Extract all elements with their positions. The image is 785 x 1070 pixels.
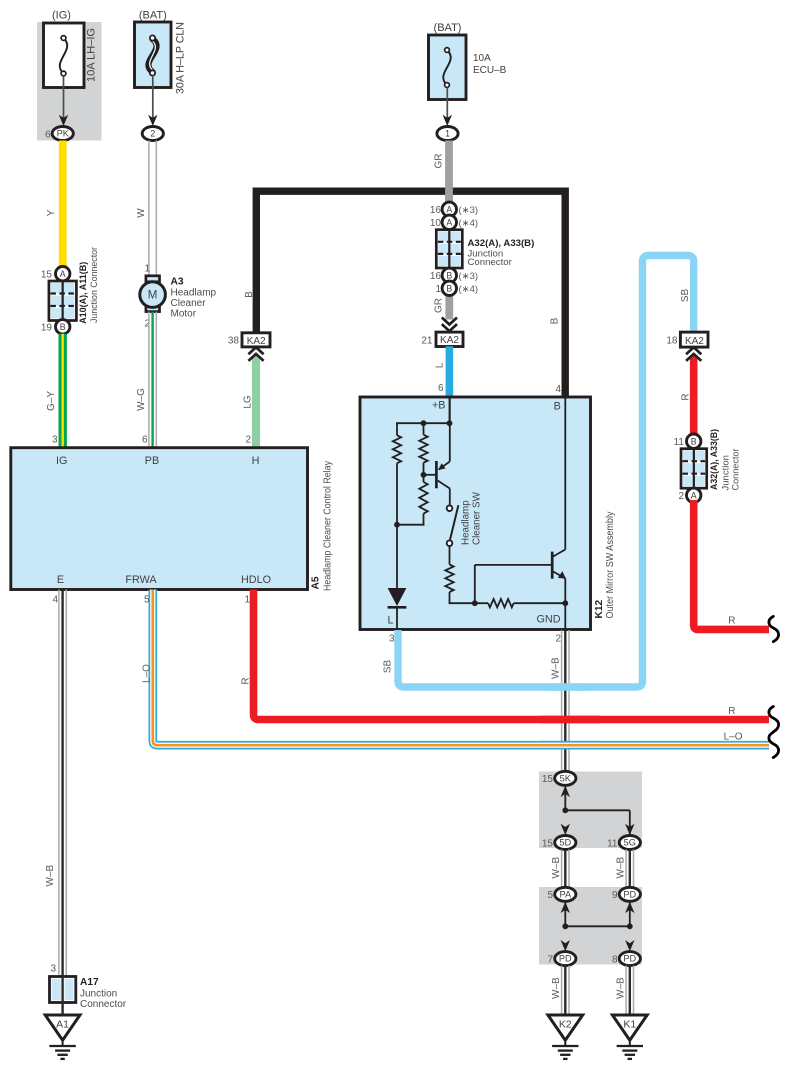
junction connector A32/A33 pin 16 B [442, 268, 456, 282]
svg-text:A17: A17 [80, 977, 99, 988]
svg-text:+B: +B [432, 400, 446, 412]
svg-text:R: R [728, 616, 735, 627]
svg-text:18: 18 [666, 336, 678, 347]
svg-text:L: L [387, 615, 393, 627]
svg-text:2: 2 [678, 491, 684, 502]
svg-text:IG: IG [56, 455, 67, 467]
junction connector A32/A33 right pin 11 B [687, 434, 701, 448]
wire G-Y green-yellow [59, 334, 67, 448]
svg-text:Motor: Motor [171, 308, 197, 319]
svg-text:K12: K12 [594, 599, 605, 618]
gray panel behind 5K/5D/5G connectors [539, 772, 642, 849]
node diode top [394, 522, 400, 528]
svg-text:W–B: W–B [551, 857, 562, 879]
junction connector A17 [50, 977, 76, 1003]
arrow down into 7 PD [561, 940, 570, 951]
svg-text:3: 3 [389, 634, 395, 645]
svg-text:PB: PB [145, 455, 159, 467]
ground A1 [45, 1015, 80, 1040]
svg-text:(∗3): (∗3) [459, 205, 479, 216]
wire fuse to connector 1 [446, 88, 448, 119]
svg-text:LG: LG [242, 395, 253, 409]
svg-text:A: A [446, 205, 452, 215]
transistor Q1 PNP [424, 474, 436, 476]
svg-text:5: 5 [144, 595, 150, 606]
arrow up into PD [629, 901, 631, 927]
wire W white [148, 141, 150, 277]
svg-text:(BAT): (BAT) [434, 22, 462, 34]
resistor R-lower-mid [423, 475, 425, 482]
break symbol R top right edge [769, 616, 779, 641]
svg-text:5: 5 [547, 890, 553, 901]
svg-text:R: R [728, 706, 735, 717]
svg-text:1: 1 [435, 284, 441, 295]
junction connector A32(A) A33(B) right block [681, 449, 707, 489]
svg-text:W: W [136, 208, 147, 218]
wire Q2 base [474, 565, 476, 603]
svg-text:A: A [60, 269, 66, 279]
svg-text:B: B [60, 322, 66, 332]
arrow up into PA [564, 901, 566, 927]
motor A3 headlamp cleaner motor [146, 276, 160, 282]
node PA branch [562, 923, 568, 929]
svg-text:2: 2 [150, 129, 155, 139]
node PD branch [627, 923, 633, 929]
wire R red from relay HDLO [254, 590, 770, 720]
wire fuse to connector 2 [152, 76, 154, 119]
arrow down into 8 PD [625, 940, 634, 951]
svg-text:K2: K2 [559, 1019, 572, 1031]
svg-text:11: 11 [674, 437, 685, 448]
svg-text:GND: GND [537, 614, 561, 626]
connector 6 PK [52, 127, 73, 141]
wire GR gray lower through junction connector [445, 186, 453, 205]
svg-text:A3: A3 [171, 276, 184, 287]
svg-text:A32(A), A33(B): A32(A), A33(B) [709, 429, 720, 490]
junction connector A32/A33 pin 16 A [442, 202, 456, 216]
resistor R-switch [449, 546, 451, 565]
svg-text:B: B [446, 271, 452, 281]
wire W-G white-green [148, 312, 150, 448]
svg-text:PA: PA [560, 889, 572, 899]
wire L-O horizontal overpass [540, 741, 600, 750]
svg-text:A10(A), A11(B): A10(A), A11(B) [78, 262, 89, 324]
wire branch to 5G [565, 809, 630, 811]
svg-text:11: 11 [607, 838, 618, 849]
svg-text:R: R [680, 393, 691, 400]
junction connector A32(A) A33(B) block [436, 230, 462, 268]
svg-text:E: E [57, 574, 64, 586]
ground K2 [548, 1015, 583, 1040]
switch headlamp cleaner SW [447, 505, 453, 511]
svg-text:B: B [244, 291, 255, 298]
connector 8 PD [619, 952, 640, 966]
svg-text:W–B: W–B [551, 657, 562, 679]
svg-text:L–O: L–O [724, 732, 743, 743]
svg-text:6: 6 [438, 383, 444, 394]
svg-text:2: 2 [245, 435, 251, 446]
wire W-B from relay E to A17 [58, 590, 60, 977]
wire W-B PD to K2 ground [561, 966, 563, 1015]
svg-text:Connector: Connector [80, 999, 127, 1010]
svg-text:W–B: W–B [616, 977, 627, 999]
gray panel behind PA/PD connectors [539, 887, 642, 965]
wire L blue into K12 +B [446, 396, 454, 398]
svg-text:W–B: W–B [45, 865, 56, 887]
svg-text:(IG): (IG) [52, 10, 71, 22]
svg-text:6: 6 [142, 435, 148, 446]
svg-text:A: A [446, 218, 452, 228]
svg-text:Headlamp: Headlamp [171, 287, 217, 298]
arrow down into 5D [561, 824, 570, 835]
wire to resistors [396, 422, 450, 424]
svg-text:6: 6 [45, 129, 51, 140]
svg-text:Y: Y [46, 209, 57, 216]
wire L-O blue-orange from relay FRWA [153, 590, 769, 746]
connector 7 PD [555, 952, 576, 966]
chevron arrows into 38 KA2 [248, 347, 263, 354]
svg-text:A5: A5 [311, 576, 322, 589]
svg-text:GR: GR [434, 298, 445, 313]
svg-text:Headlamp Cleaner Control Relay: Headlamp Cleaner Control Relay [323, 461, 334, 591]
svg-text:SB: SB [382, 660, 393, 674]
svg-text:3: 3 [52, 435, 58, 446]
resistor R-mid [423, 423, 425, 435]
svg-text:K1: K1 [623, 1019, 636, 1031]
svg-text:16: 16 [430, 205, 442, 216]
wire SB horizontal overpass [545, 683, 590, 690]
svg-text:5G: 5G [624, 838, 636, 848]
svg-text:Connector: Connector [468, 257, 513, 268]
relay A5 headlamp cleaner control relay [11, 448, 308, 590]
svg-text:1: 1 [244, 595, 250, 606]
svg-text:B: B [549, 317, 560, 324]
diode D1 [396, 525, 398, 589]
svg-text:PD: PD [623, 954, 636, 964]
wire W-B 5D to PA [561, 850, 563, 888]
svg-text:W–G: W–G [136, 388, 147, 411]
wire GR gray upper [445, 141, 453, 206]
svg-text:W–B: W–B [551, 977, 562, 999]
resistor R-left [396, 423, 398, 435]
svg-text:PD: PD [559, 954, 572, 964]
svg-text:9: 9 [612, 890, 618, 901]
wire LG light green [252, 356, 260, 449]
svg-text:KA2: KA2 [685, 336, 704, 347]
transistor Q2 NPN [551, 552, 554, 579]
svg-text:W–B: W–B [616, 857, 627, 879]
svg-text:8: 8 [612, 955, 618, 966]
svg-text:FRWA: FRWA [125, 574, 157, 586]
connector 38 KA2 [242, 333, 270, 347]
svg-text:Outer Mirror SW Assembly: Outer Mirror SW Assembly [605, 511, 616, 618]
svg-text:5D: 5D [559, 838, 571, 848]
node +B junction [447, 420, 453, 426]
junction connector A10(A) A11(B) block [49, 281, 77, 321]
connector 15 5K [555, 771, 576, 785]
svg-text:5K: 5K [560, 773, 572, 783]
wire SB light blue from K12 L pin [398, 256, 694, 688]
wire R red right column [690, 356, 698, 437]
svg-text:1: 1 [445, 129, 450, 139]
svg-text:KA2: KA2 [247, 336, 266, 347]
svg-text:(∗4): (∗4) [459, 218, 479, 229]
svg-text:G–Y: G–Y [46, 391, 57, 411]
junction connector A32/A33 right pin 2 A [687, 488, 701, 502]
connector 15 5D [555, 836, 576, 850]
chevron arrows into 18 KA2 [686, 347, 701, 354]
svg-text:Junction: Junction [80, 988, 117, 999]
svg-text:PK: PK [57, 129, 70, 139]
svg-text:HDLO: HDLO [241, 574, 271, 586]
svg-text:KA2: KA2 [440, 335, 459, 346]
switch assembly K12 outer mirror SW assembly [360, 397, 591, 630]
svg-text:38: 38 [228, 336, 240, 347]
node emitter junction [562, 600, 568, 606]
connector 1 [437, 127, 458, 141]
junction connector pin 19 B [56, 320, 70, 334]
svg-text:A: A [691, 491, 697, 501]
wire fuse to connector 6 PK [63, 76, 65, 119]
connector 21 KA2 [436, 332, 463, 346]
junction connector A10(A) A11(B) pin 15 A [56, 267, 70, 281]
svg-text:A1: A1 [56, 1019, 69, 1031]
svg-text:(∗4): (∗4) [459, 284, 479, 295]
node base Q1 [421, 472, 427, 478]
wire +B internal [449, 397, 451, 423]
svg-text:B: B [691, 436, 697, 446]
svg-text:SB: SB [680, 289, 691, 303]
connector 2 [142, 127, 163, 141]
svg-text:16: 16 [430, 271, 442, 282]
svg-text:Connector: Connector [730, 449, 741, 491]
wire to horizontal resistor [449, 602, 489, 604]
connector 18 KA2 [680, 332, 708, 347]
arrow up into 5K [564, 785, 566, 811]
wire connecting nodes [565, 925, 630, 927]
svg-text:Junction Connector: Junction Connector [89, 246, 100, 323]
svg-text:H: H [252, 455, 260, 467]
connector 5 PA [555, 887, 576, 901]
wire W-B PD to K1 ground [625, 966, 627, 1015]
svg-text:1: 1 [144, 264, 150, 275]
junction connector A32/A33 pin 1 B [442, 281, 456, 295]
connector 11 5G [619, 836, 640, 850]
svg-text:3: 3 [50, 964, 56, 975]
svg-text:Cleaner SW: Cleaner SW [471, 491, 482, 545]
svg-text:Headlamp: Headlamp [460, 500, 471, 545]
svg-text:30A H–LP CLN: 30A H–LP CLN [175, 22, 187, 94]
svg-text:B: B [446, 284, 452, 294]
wire Y yellow [59, 141, 67, 268]
svg-text:7: 7 [547, 955, 553, 966]
svg-text:21: 21 [421, 336, 433, 347]
svg-text:Cleaner: Cleaner [171, 298, 207, 309]
svg-text:(∗3): (∗3) [459, 271, 479, 282]
wire W-B from K12 GND [561, 630, 563, 772]
svg-text:(BAT): (BAT) [139, 10, 167, 22]
svg-text:M: M [148, 290, 158, 302]
svg-text:L: L [435, 362, 446, 368]
node below 5K [562, 807, 568, 813]
svg-text:L–O: L–O [142, 664, 153, 683]
wire R red horizontal overpass [540, 716, 600, 724]
svg-text:4: 4 [555, 384, 561, 395]
svg-text:10A LH–IG: 10A LH–IG [86, 28, 98, 82]
svg-text:2: 2 [555, 634, 561, 645]
chevron arrows into 21 KA2 [442, 318, 457, 325]
junction connector A32/A33 pin 10 A [442, 215, 456, 229]
wire B black loop [256, 191, 565, 397]
wire W-B 5G to PD [625, 850, 627, 888]
svg-text:15: 15 [542, 838, 554, 849]
wire R red to right edge [694, 500, 769, 629]
ground K1 [612, 1015, 647, 1040]
svg-text:GR: GR [434, 154, 445, 169]
svg-text:15: 15 [41, 270, 53, 281]
break symbol R middle right edge [769, 707, 779, 732]
svg-text:15: 15 [542, 774, 554, 785]
svg-text:19: 19 [41, 323, 53, 334]
svg-text:10A: 10A [473, 53, 491, 64]
wire L blue [446, 346, 454, 397]
connector 9 PD [619, 887, 640, 901]
svg-text:4: 4 [52, 595, 58, 606]
arrow down into 5G [625, 824, 634, 835]
svg-text:PD: PD [623, 889, 636, 899]
svg-text:ECU–B: ECU–B [473, 65, 507, 76]
gray panel behind IG fuse [37, 22, 102, 141]
svg-text:10: 10 [430, 218, 442, 229]
resistor R-horizontal [488, 599, 513, 607]
break symbol L-O right edge [769, 732, 779, 757]
svg-text:R: R [240, 677, 251, 684]
svg-text:B: B [554, 401, 561, 413]
